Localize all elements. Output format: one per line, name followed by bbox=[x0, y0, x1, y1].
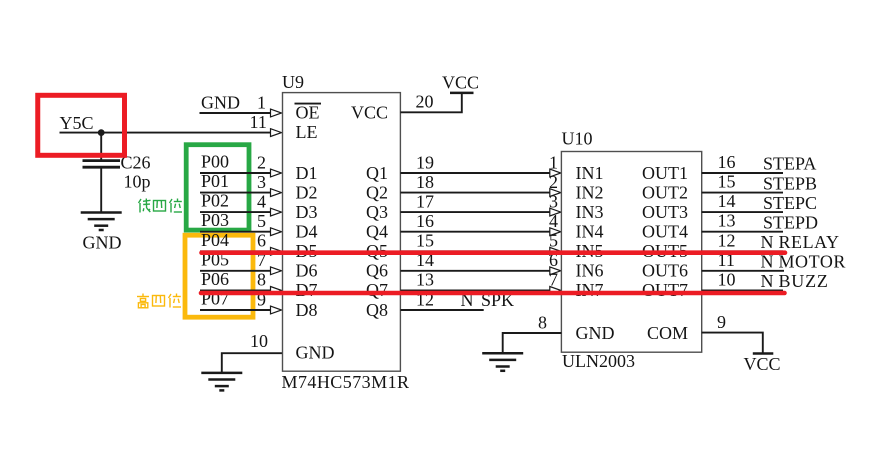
svg-text:IN2: IN2 bbox=[576, 182, 604, 202]
svg-text:VCC: VCC bbox=[442, 73, 479, 93]
green annotation box (low nibble P00-P03) bbox=[186, 145, 249, 230]
green label 低四位 bbox=[139, 199, 183, 213]
svg-text:ULN2003: ULN2003 bbox=[562, 351, 635, 371]
orange label 高四位 bbox=[137, 294, 181, 308]
svg-text:13: 13 bbox=[416, 270, 434, 290]
wire U10 pin 8 to ground bbox=[503, 333, 562, 353]
svg-text:D4: D4 bbox=[296, 222, 318, 242]
pin arrow D5 bbox=[271, 247, 282, 255]
pin arrow D4 bbox=[271, 228, 282, 236]
wire Q5 to IN5 bbox=[400, 250, 549, 252]
svg-text:17: 17 bbox=[416, 191, 434, 211]
svg-text:OUT3: OUT3 bbox=[642, 202, 688, 222]
svg-text:M74HC573M1R: M74HC573M1R bbox=[282, 372, 410, 392]
svg-text:IN3: IN3 bbox=[576, 202, 604, 222]
wire junction to C26 bbox=[100, 133, 102, 160]
svg-text:15: 15 bbox=[416, 231, 434, 251]
wire P07 bbox=[200, 309, 271, 311]
svg-text:3: 3 bbox=[257, 172, 266, 192]
svg-text:Q2: Q2 bbox=[366, 182, 388, 202]
svg-text:GND: GND bbox=[296, 343, 335, 363]
wire P02 bbox=[200, 211, 271, 213]
wire P00 bbox=[200, 172, 271, 174]
pin arrow LE bbox=[271, 129, 282, 137]
pin arrow IN4 bbox=[550, 228, 561, 236]
svg-text:P06: P06 bbox=[201, 269, 229, 289]
svg-text:GND: GND bbox=[576, 323, 615, 343]
wire Q1 to IN1 bbox=[400, 172, 549, 174]
svg-text:12: 12 bbox=[718, 230, 736, 250]
wire U9 pin 10 to ground bbox=[222, 353, 283, 373]
svg-text:STEPA: STEPA bbox=[763, 154, 816, 174]
svg-text:Q1: Q1 bbox=[366, 163, 388, 183]
svg-text:2: 2 bbox=[257, 152, 266, 172]
svg-text:OUT1: OUT1 bbox=[642, 163, 688, 183]
svg-text:Q4: Q4 bbox=[366, 222, 388, 242]
wire Q7 to IN7 bbox=[400, 289, 549, 291]
svg-text:P02: P02 bbox=[201, 191, 229, 211]
pin arrow D8 bbox=[271, 306, 282, 314]
svg-text:10p: 10p bbox=[124, 171, 151, 191]
pin arrow IN3 bbox=[550, 208, 561, 216]
wire P05 bbox=[200, 270, 271, 272]
wire U9 pin 20 to VCC bbox=[400, 94, 461, 113]
svg-text:1: 1 bbox=[257, 92, 266, 112]
svg-text:9: 9 bbox=[717, 312, 726, 332]
wire Q4 to IN4 bbox=[400, 231, 549, 233]
svg-text:Q7: Q7 bbox=[366, 280, 388, 300]
pin arrow OE bbox=[271, 109, 282, 117]
svg-text:GND: GND bbox=[201, 93, 240, 113]
svg-text:MOTOR: MOTOR bbox=[779, 252, 846, 272]
svg-text:BUZZ: BUZZ bbox=[779, 271, 829, 291]
pin arrow D2 bbox=[271, 189, 282, 197]
svg-text:STEPD: STEPD bbox=[763, 212, 818, 232]
svg-text:D1: D1 bbox=[296, 163, 318, 183]
svg-text:OUT4: OUT4 bbox=[642, 222, 688, 242]
svg-text:6: 6 bbox=[257, 231, 266, 251]
wire P06 bbox=[200, 289, 271, 291]
wire GND to U9 pin 1 bbox=[200, 112, 272, 114]
svg-text:8: 8 bbox=[538, 312, 547, 332]
svg-text:Q6: Q6 bbox=[366, 261, 388, 281]
svg-text:D2: D2 bbox=[296, 182, 318, 202]
svg-text:VCC: VCC bbox=[744, 354, 781, 374]
svg-text:OUT2: OUT2 bbox=[642, 182, 688, 202]
wire U10 pin 9 COM to VCC bbox=[702, 333, 763, 353]
svg-text:OUT7: OUT7 bbox=[642, 280, 688, 300]
svg-text:N: N bbox=[761, 271, 774, 291]
svg-text:20: 20 bbox=[416, 92, 434, 112]
svg-text:Q3: Q3 bbox=[366, 202, 388, 222]
power symbol VCC bottom bbox=[753, 352, 774, 355]
svg-text:5: 5 bbox=[257, 211, 266, 231]
svg-text:16: 16 bbox=[718, 152, 736, 172]
svg-text:11: 11 bbox=[250, 112, 267, 132]
svg-text:P01: P01 bbox=[201, 171, 229, 191]
pin arrow IN7 bbox=[550, 287, 561, 295]
svg-text:P00: P00 bbox=[201, 152, 229, 172]
svg-text:LE: LE bbox=[296, 122, 318, 142]
wire C26 to ground bbox=[100, 167, 102, 212]
svg-text:10: 10 bbox=[250, 331, 268, 351]
pin arrow D6 bbox=[271, 267, 282, 275]
wire Q2 to IN2 bbox=[400, 192, 549, 194]
red annotation box Y5C bbox=[38, 95, 125, 155]
pin arrow D1 bbox=[271, 169, 282, 177]
svg-text:18: 18 bbox=[416, 172, 434, 192]
pin arrow IN1 bbox=[550, 169, 561, 177]
red highlight line row P06/N_BUZZ bbox=[201, 291, 785, 296]
svg-text:16: 16 bbox=[416, 211, 434, 231]
pin arrow D7 bbox=[271, 287, 282, 295]
svg-text:Q8: Q8 bbox=[366, 300, 388, 320]
red highlight line row P04/N_RELAY bbox=[202, 250, 786, 255]
svg-text:OE: OE bbox=[296, 103, 320, 123]
wire Q8 N_SPK stub bbox=[400, 309, 483, 311]
svg-text:10: 10 bbox=[718, 269, 736, 289]
svg-text:D8: D8 bbox=[296, 300, 318, 320]
svg-text:D6: D6 bbox=[296, 261, 318, 281]
pin arrow IN6 bbox=[550, 267, 561, 275]
wire OUT5 N_RELAY bbox=[702, 250, 783, 252]
wire OUT1 STEPA bbox=[702, 172, 783, 174]
svg-text:RELAY: RELAY bbox=[779, 232, 840, 252]
svg-text:D3: D3 bbox=[296, 202, 318, 222]
svg-text:STEPC: STEPC bbox=[763, 193, 817, 213]
svg-text:OUT6: OUT6 bbox=[642, 261, 688, 281]
svg-text:GND: GND bbox=[83, 233, 122, 253]
wire P04 bbox=[200, 250, 271, 252]
svg-text:19: 19 bbox=[416, 152, 434, 172]
svg-text:STEPB: STEPB bbox=[763, 173, 817, 193]
svg-text:COM: COM bbox=[647, 323, 688, 343]
ground U10 pin 8 bbox=[482, 353, 523, 371]
op-amp U9 body bbox=[283, 93, 401, 372]
svg-text:IN7: IN7 bbox=[576, 280, 604, 300]
svg-text:8: 8 bbox=[257, 270, 266, 290]
svg-text:P04: P04 bbox=[201, 230, 229, 250]
svg-text:15: 15 bbox=[718, 172, 736, 192]
wire P03 bbox=[200, 231, 271, 233]
svg-text:IN4: IN4 bbox=[576, 222, 604, 242]
svg-text:D7: D7 bbox=[296, 280, 318, 300]
svg-text:Y5C: Y5C bbox=[60, 113, 94, 133]
svg-text:4: 4 bbox=[257, 191, 266, 211]
ground under C26 bbox=[81, 213, 122, 231]
wire OUT2 STEPB bbox=[702, 192, 783, 194]
wire Q3 to IN3 bbox=[400, 211, 549, 213]
svg-text:IN1: IN1 bbox=[576, 163, 604, 183]
wire OUT6 N_MOTOR bbox=[702, 270, 784, 272]
orange annotation box (high nibble P04-P07) bbox=[185, 235, 253, 317]
wire OUT4 STEPD bbox=[702, 231, 783, 233]
pin arrow IN5 bbox=[550, 247, 561, 255]
svg-text:U9: U9 bbox=[282, 72, 304, 92]
pin arrow IN2 bbox=[550, 189, 561, 197]
junction Y5C/C26 bbox=[98, 129, 105, 136]
wire Y5C to U9 pin 11 bbox=[60, 132, 272, 134]
svg-text:IN6: IN6 bbox=[576, 261, 604, 281]
wire Q6 to IN6 bbox=[400, 270, 549, 272]
wire P01 bbox=[200, 192, 271, 194]
ground U9 pin 10 bbox=[201, 373, 242, 391]
svg-text:U10: U10 bbox=[562, 129, 593, 149]
pin arrow D3 bbox=[271, 208, 282, 216]
svg-text:14: 14 bbox=[718, 191, 736, 211]
svg-text:13: 13 bbox=[718, 211, 736, 231]
wire OUT3 STEPC bbox=[702, 211, 783, 213]
transistor array U10 body bbox=[561, 152, 701, 353]
svg-text:P03: P03 bbox=[201, 210, 229, 230]
power symbol VCC top bbox=[450, 92, 474, 95]
capacitor C26 bbox=[83, 161, 121, 168]
svg-text:VCC: VCC bbox=[351, 103, 388, 123]
svg-text:N: N bbox=[761, 232, 774, 252]
wire OUT7 N_BUZZ bbox=[702, 289, 783, 291]
